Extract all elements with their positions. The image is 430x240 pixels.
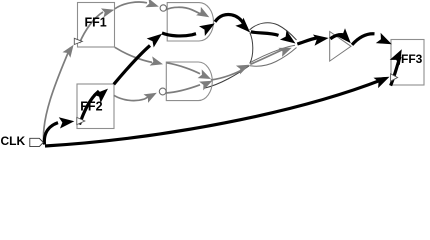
svg-text:FF1: FF1 [85,16,107,30]
svg-text:FF3: FF3 [401,52,423,66]
svg-text:CLK: CLK [1,134,26,148]
svg-text:FF2: FF2 [80,99,102,113]
